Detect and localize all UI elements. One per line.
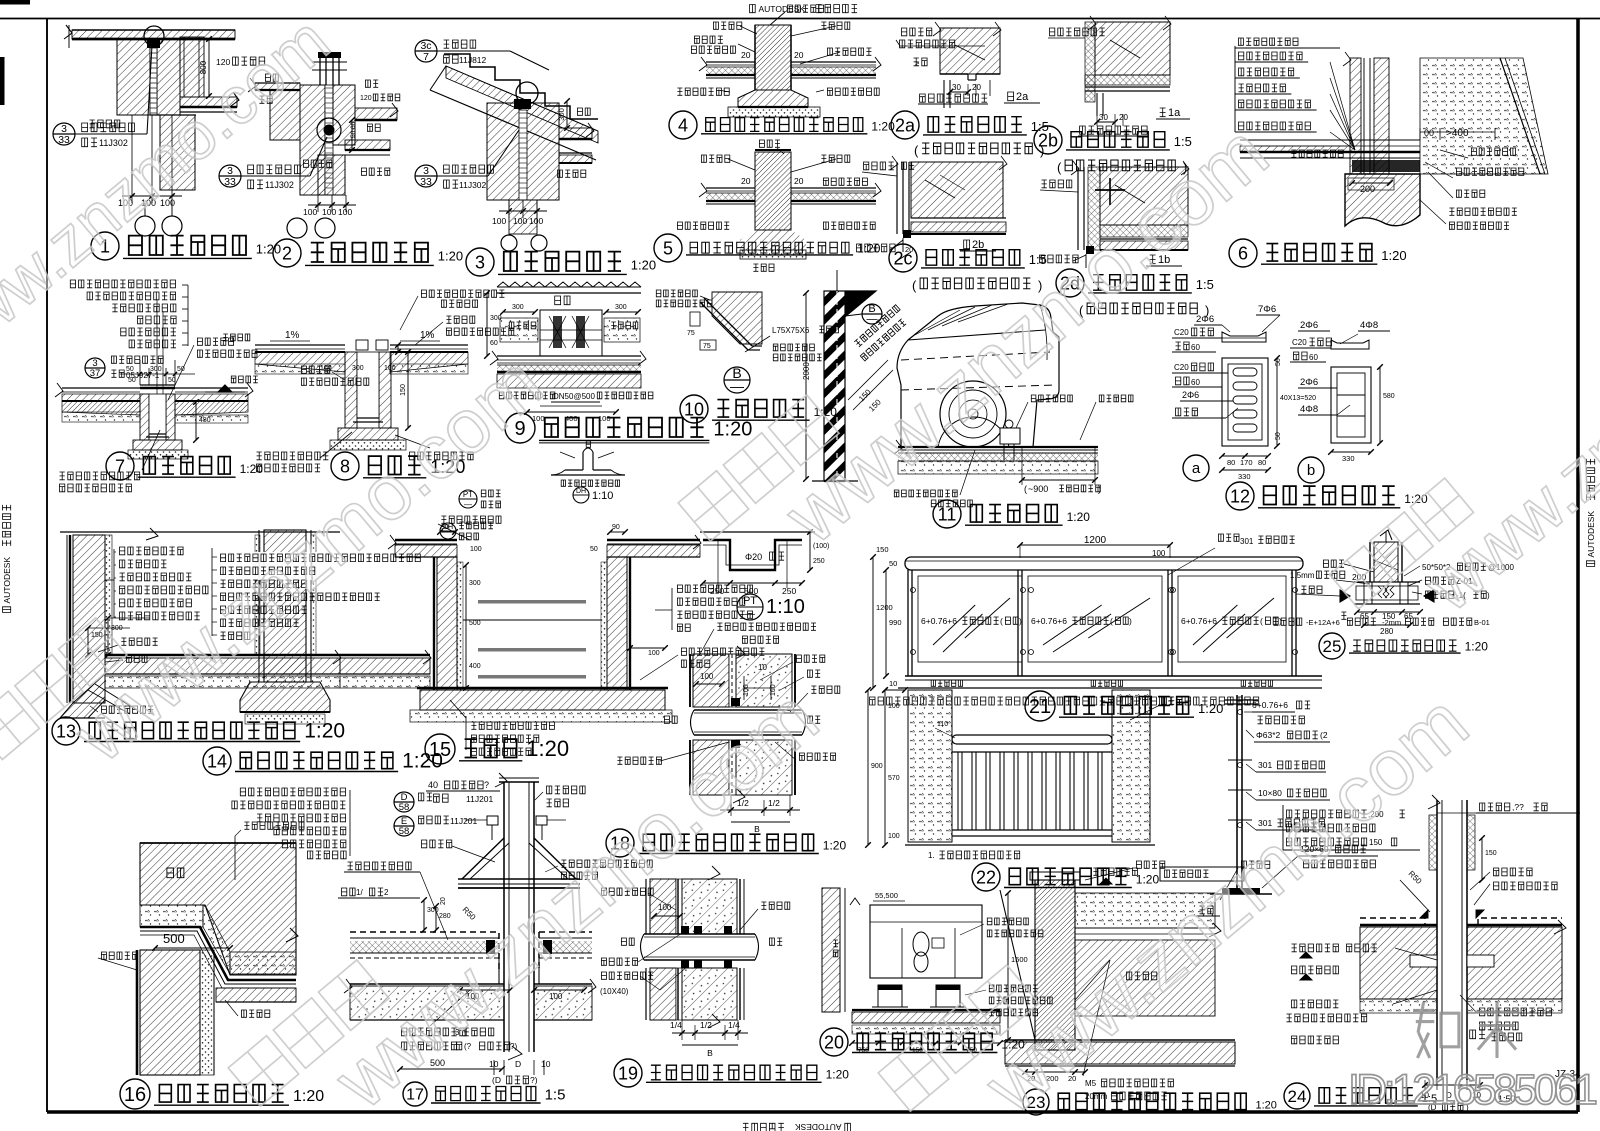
svg-text:280: 280	[1380, 627, 1394, 636]
svg-text:—: —	[745, 609, 755, 620]
svg-text:~900: ~900	[1028, 484, 1048, 494]
svg-text:1:5: 1:5	[1196, 277, 1214, 292]
svg-text:—: —	[730, 378, 744, 394]
svg-text:30: 30	[1099, 113, 1108, 122]
svg-text:50: 50	[126, 366, 134, 373]
svg-text:11J302: 11J302	[459, 180, 487, 190]
svg-text:7: 7	[423, 52, 429, 63]
svg-text:(: (	[1057, 160, 1062, 175]
svg-text:6+0.76+6: 6+0.76+6	[921, 616, 957, 626]
svg-text:280: 280	[439, 913, 451, 920]
svg-text:50: 50	[889, 559, 897, 568]
svg-text:100: 100	[320, 365, 332, 372]
svg-text:150: 150	[1485, 850, 1497, 857]
svg-text:100: 100	[888, 833, 900, 840]
svg-text:6: 6	[1238, 243, 1248, 263]
svg-text:20: 20	[741, 50, 751, 60]
svg-text:ID:1216585061: ID:1216585061	[1348, 1066, 1598, 1114]
svg-text:2Φ6: 2Φ6	[1300, 320, 1318, 331]
svg-text:1/2: 1/2	[768, 798, 780, 808]
svg-text:110: 110	[937, 721, 948, 728]
svg-text:330: 330	[1342, 454, 1355, 463]
svg-text:20: 20	[972, 83, 981, 92]
svg-text:M5: M5	[1085, 1079, 1097, 1088]
svg-text:6+0.76+6: 6+0.76+6	[1181, 616, 1217, 626]
svg-text:2b: 2b	[1038, 130, 1058, 150]
svg-text:58: 58	[399, 802, 410, 813]
svg-text:3: 3	[423, 166, 429, 177]
svg-text:11J812: 11J812	[459, 55, 487, 65]
svg-text:100: 100	[322, 207, 336, 217]
svg-text:300: 300	[427, 907, 439, 914]
svg-text:100: 100	[384, 365, 396, 372]
svg-text:40X13=520: 40X13=520	[1280, 395, 1316, 402]
svg-text:3: 3	[475, 252, 485, 272]
svg-text:(: (	[914, 143, 919, 158]
svg-text:5: 5	[663, 238, 673, 258]
svg-text:1.5mm: 1.5mm	[1290, 571, 1315, 580]
svg-text:90: 90	[612, 524, 620, 531]
svg-text:250: 250	[710, 586, 724, 596]
svg-text:50: 50	[1275, 432, 1282, 440]
svg-text:3: 3	[227, 166, 233, 177]
svg-text:10: 10	[889, 679, 897, 688]
svg-text:25: 25	[1323, 637, 1342, 656]
svg-text:2Φ6: 2Φ6	[1196, 314, 1214, 325]
svg-text:4Φ8: 4Φ8	[1360, 320, 1378, 331]
svg-text:1:20: 1:20	[826, 1068, 850, 1082]
svg-text:75: 75	[687, 330, 695, 337]
svg-text:4Φ8: 4Φ8	[1300, 404, 1318, 415]
svg-text:C20: C20	[1174, 328, 1189, 337]
svg-text:500: 500	[163, 931, 185, 946]
svg-text:990: 990	[889, 618, 902, 627]
svg-text:50 60: 50 60	[350, 121, 357, 138]
svg-text:4: 4	[678, 115, 688, 135]
svg-text:11: 11	[938, 504, 957, 524]
svg-text:1:20: 1:20	[293, 1088, 324, 1105]
svg-text:1:20: 1:20	[438, 249, 463, 264]
svg-text:): )	[1129, 616, 1132, 626]
svg-text:300: 300	[557, 108, 566, 121]
svg-text:37: 37	[90, 368, 101, 379]
svg-text:00: 00	[1424, 128, 1434, 138]
svg-text:50: 50	[128, 377, 136, 384]
svg-text:800: 800	[199, 60, 208, 74]
svg-text:100: 100	[513, 216, 527, 226]
svg-text:100: 100	[700, 672, 714, 681]
svg-text:40: 40	[428, 780, 438, 790]
svg-text:301: 301	[1240, 537, 1254, 546]
svg-text:100: 100	[492, 216, 506, 226]
svg-text:60: 60	[1309, 353, 1318, 362]
svg-text:2000: 2000	[802, 362, 811, 380]
svg-text:1:20: 1:20	[823, 839, 847, 853]
svg-text:90: 90	[441, 524, 449, 531]
svg-text:10: 10	[684, 399, 704, 419]
svg-text:100: 100	[529, 216, 543, 226]
svg-text:b: b	[1307, 462, 1315, 479]
svg-text:20: 20	[794, 50, 804, 60]
svg-text:,??: ,??	[1512, 802, 1524, 812]
svg-text:1:5: 1:5	[545, 1087, 566, 1104]
svg-text:?: ?	[484, 780, 489, 790]
svg-text:20: 20	[1119, 113, 1128, 122]
svg-text:6+0.76+6: 6+0.76+6	[1031, 616, 1067, 626]
svg-text:20: 20	[741, 176, 751, 186]
svg-text:150: 150	[876, 545, 889, 554]
svg-text:80: 80	[1227, 458, 1235, 467]
svg-text:PT: PT	[743, 595, 757, 607]
svg-text:300: 300	[469, 580, 481, 587]
svg-text:1:20: 1:20	[1067, 510, 1091, 524]
svg-text:10: 10	[489, 1059, 499, 1069]
svg-text:DN50@500: DN50@500	[553, 392, 595, 401]
svg-text:D: D	[515, 1059, 521, 1069]
svg-text:75: 75	[703, 343, 711, 350]
svg-text:2: 2	[282, 243, 292, 263]
svg-text:14: 14	[207, 751, 227, 771]
svg-text:1.: 1.	[928, 851, 935, 860]
svg-text:20: 20	[824, 1032, 844, 1052]
svg-text:1:20: 1:20	[1198, 701, 1223, 716]
svg-text:400: 400	[469, 663, 481, 670]
svg-text:33: 33	[224, 177, 236, 188]
svg-text:55,500: 55,500	[875, 891, 898, 900]
svg-text:C20: C20	[1174, 363, 1189, 372]
svg-text:7: 7	[115, 456, 125, 476]
svg-text:PT: PT	[463, 490, 473, 499]
svg-text:10×80: 10×80	[1258, 788, 1282, 798]
svg-text:22: 22	[976, 867, 996, 887]
svg-text:B: B	[707, 1048, 713, 1058]
svg-text:?): ?)	[530, 1075, 538, 1085]
svg-text:300: 300	[490, 315, 502, 322]
svg-text:1:20: 1:20	[1465, 639, 1489, 653]
svg-text:100: 100	[658, 903, 672, 912]
svg-text:1:20: 1:20	[1256, 1100, 1277, 1112]
svg-text:-2mm: -2mm	[1382, 618, 1401, 627]
svg-text:580: 580	[1383, 393, 1395, 400]
svg-text:DH: DH	[576, 488, 586, 495]
svg-text:B: B	[754, 824, 760, 834]
svg-text:200: 200	[1360, 184, 1375, 194]
svg-text:11J201: 11J201	[466, 794, 494, 804]
svg-text:50: 50	[590, 546, 598, 553]
svg-text:120: 120	[360, 95, 372, 102]
svg-text:900: 900	[871, 763, 883, 770]
svg-text:a: a	[1192, 460, 1201, 477]
svg-text:100: 100	[549, 992, 563, 1001]
svg-text:1:20: 1:20	[857, 241, 881, 255]
svg-text:50: 50	[168, 377, 176, 384]
svg-text:30: 30	[952, 83, 961, 92]
svg-text:AUTODESK: AUTODESK	[795, 1122, 842, 1131]
svg-text:15: 15	[429, 739, 451, 761]
svg-text:7Φ6: 7Φ6	[1258, 304, 1276, 315]
svg-text:≥: ≥	[915, 59, 920, 68]
svg-text:Φ63*2: Φ63*2	[1256, 730, 1281, 740]
svg-text:570: 570	[888, 775, 900, 782]
svg-text:58: 58	[399, 826, 410, 837]
svg-text:(: (	[1000, 616, 1003, 626]
svg-text:C20: C20	[1292, 338, 1307, 347]
svg-text:3: 3	[61, 124, 67, 135]
svg-text:100: 100	[303, 207, 317, 217]
svg-text:2Φ6: 2Φ6	[1182, 390, 1199, 400]
svg-text:1/2: 1/2	[700, 1020, 712, 1030]
svg-text:60: 60	[1191, 343, 1200, 352]
svg-text:2Φ6: 2Φ6	[1300, 377, 1318, 388]
svg-text:6+0.76+6: 6+0.76+6	[1252, 700, 1288, 710]
svg-text:12: 12	[1230, 486, 1250, 506]
svg-text:1/4: 1/4	[670, 1020, 682, 1030]
svg-text:1:10: 1:10	[766, 596, 805, 618]
svg-text:20: 20	[440, 897, 447, 905]
svg-text:(D: (D	[492, 1075, 501, 1085]
svg-text:21: 21	[1029, 696, 1051, 718]
svg-text:500: 500	[469, 620, 481, 627]
svg-text:20: 20	[794, 176, 804, 186]
svg-text:60: 60	[1191, 378, 1200, 387]
svg-text:L75X75X6: L75X75X6	[772, 326, 810, 335]
svg-text:300: 300	[150, 366, 162, 373]
svg-text:300: 300	[352, 365, 364, 372]
svg-text:150: 150	[400, 384, 407, 396]
svg-text:1:10: 1:10	[592, 490, 613, 502]
svg-text:300: 300	[512, 304, 524, 311]
svg-text:-E+12A+6: -E+12A+6	[1306, 618, 1340, 627]
svg-text:1200: 1200	[1084, 535, 1107, 546]
svg-text:B-01: B-01	[1474, 618, 1490, 627]
svg-text:>400: >400	[1446, 128, 1469, 139]
svg-text:480: 480	[199, 417, 211, 424]
svg-text:1%: 1%	[285, 330, 300, 341]
svg-text:?): ?)	[510, 1042, 517, 1051]
svg-text:1a: 1a	[1168, 107, 1181, 119]
svg-text:(: (	[1260, 616, 1263, 626]
svg-text:330: 330	[1238, 472, 1251, 481]
svg-text:1500: 1500	[1011, 955, 1028, 964]
svg-text:100: 100	[888, 703, 900, 710]
svg-text:301: 301	[1258, 760, 1272, 770]
svg-text:19: 19	[618, 1063, 638, 1083]
svg-text:250: 250	[782, 586, 796, 596]
svg-text:2c: 2c	[893, 248, 912, 268]
svg-text:(2: (2	[1320, 730, 1328, 740]
svg-text:100: 100	[648, 650, 660, 657]
svg-text:AUTODESK: AUTODESK	[2, 557, 12, 604]
svg-text:150: 150	[91, 632, 103, 639]
svg-text:(: (	[912, 278, 917, 293]
svg-text:—: —	[464, 500, 472, 509]
svg-text:): )	[1098, 484, 1101, 494]
svg-text:50: 50	[1275, 358, 1282, 366]
svg-text:Φ20: Φ20	[745, 552, 762, 562]
svg-text:250: 250	[813, 558, 825, 565]
svg-text:1:20: 1:20	[713, 419, 752, 441]
svg-text:10: 10	[758, 663, 767, 672]
svg-text:—: —	[867, 314, 878, 326]
svg-text:1200: 1200	[876, 603, 893, 612]
svg-text:(10X40): (10X40)	[600, 987, 629, 996]
svg-text:1/4: 1/4	[728, 1020, 740, 1030]
svg-text:100: 100	[470, 546, 482, 553]
svg-text:(: (	[1110, 616, 1113, 626]
svg-text:33: 33	[58, 135, 70, 146]
svg-text:2a: 2a	[1016, 91, 1029, 103]
svg-text:10: 10	[541, 1059, 551, 1069]
svg-text:(: (	[1024, 484, 1027, 494]
svg-text:1:20: 1:20	[526, 736, 569, 761]
svg-text:1:20: 1:20	[1381, 248, 1406, 263]
svg-text:24: 24	[1288, 1087, 1307, 1106]
svg-text:2a: 2a	[895, 115, 916, 135]
svg-text:1/: 1/	[356, 888, 363, 897]
svg-text:170: 170	[1240, 458, 1253, 467]
svg-text:11J201: 11J201	[450, 816, 478, 826]
svg-text:11J302: 11J302	[265, 180, 294, 190]
svg-text:): )	[1019, 616, 1022, 626]
svg-text:3c: 3c	[420, 41, 431, 52]
svg-text:2: 2	[384, 888, 389, 897]
svg-text:100: 100	[338, 207, 352, 217]
svg-text:16: 16	[124, 1084, 146, 1106]
svg-text:80: 80	[1258, 458, 1266, 467]
svg-text:1:20: 1:20	[631, 258, 656, 273]
svg-text:1:20: 1:20	[1136, 873, 1160, 887]
svg-text:300: 300	[111, 625, 123, 632]
svg-text:1%: 1%	[420, 330, 435, 341]
svg-text:33: 33	[420, 177, 432, 188]
svg-text:300: 300	[615, 304, 627, 311]
